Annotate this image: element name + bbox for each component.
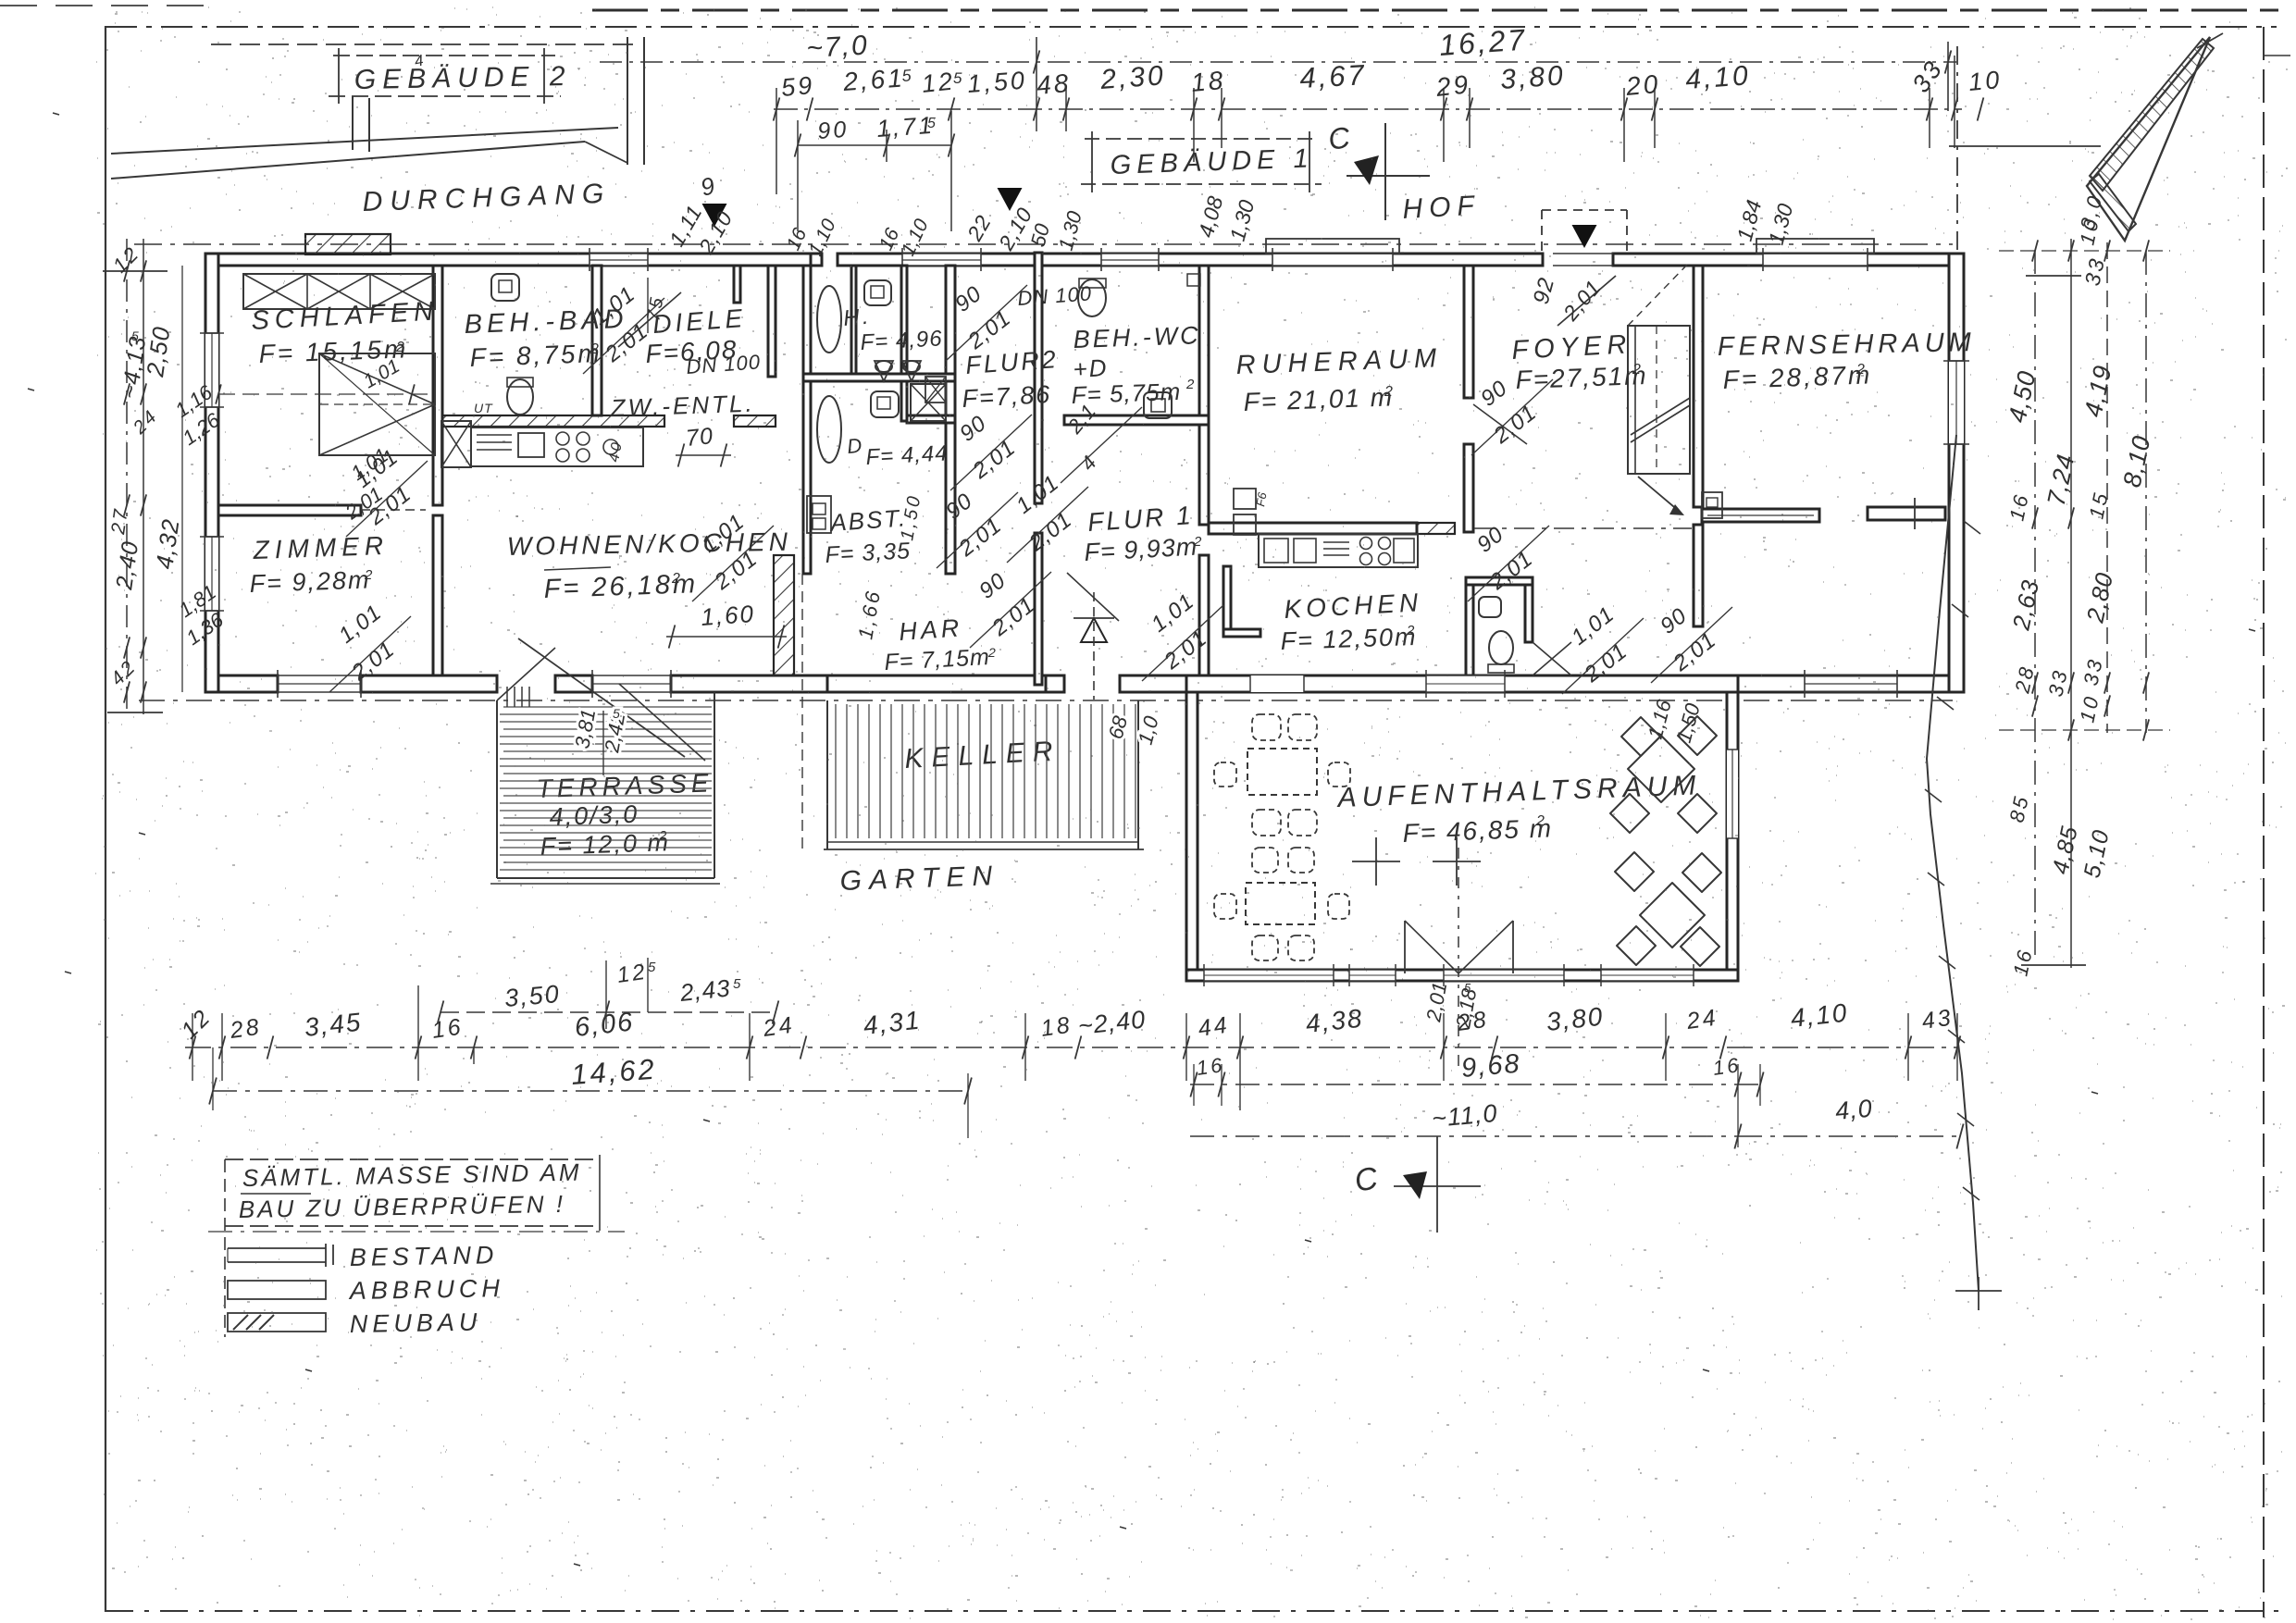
kitchen boxes FLUR1 side bbox=[1234, 489, 1256, 509]
svg-text:2: 2 bbox=[1185, 377, 1197, 392]
svg-text:5: 5 bbox=[733, 976, 743, 992]
svg-text:BESTAND: BESTAND bbox=[350, 1241, 499, 1271]
label box GEBAEUDE 2 bbox=[333, 55, 555, 56]
neubau hatched wall under DIELE bbox=[734, 415, 776, 427]
svg-text:F= 7,15m: F= 7,15m bbox=[884, 644, 991, 675]
svg-text:F= 4,44: F= 4,44 bbox=[865, 440, 949, 470]
wall RUHERAUM | FOYER bbox=[1464, 266, 1473, 398]
svg-text:29: 29 bbox=[1433, 69, 1471, 102]
sanitary block mid vertical bbox=[901, 266, 907, 421]
svg-text:28: 28 bbox=[1455, 1007, 1490, 1037]
svg-text:4,38: 4,38 bbox=[1304, 1004, 1364, 1038]
property dashed line below building bbox=[139, 700, 1953, 701]
legend ABBRUCH bbox=[228, 1281, 326, 1299]
svg-text:5: 5 bbox=[901, 66, 914, 85]
schlafen zimmer inner ticks bbox=[218, 393, 435, 395]
left margin ticks bbox=[141, 260, 146, 281]
svg-text:2: 2 bbox=[1535, 813, 1547, 829]
svg-text:2: 2 bbox=[395, 340, 407, 355]
sanitary block right wall bbox=[946, 266, 955, 574]
svg-text:4,31: 4,31 bbox=[862, 1006, 922, 1040]
svg-text:44: 44 bbox=[1197, 1012, 1231, 1042]
svg-text:10: 10 bbox=[1967, 66, 2004, 96]
svg-text:F= 9,93m: F= 9,93m bbox=[1084, 533, 1198, 566]
scan edge top bbox=[592, 9, 2290, 12]
wall SCHLAFEN | ZIMMER bbox=[218, 505, 361, 515]
svg-text:3,80: 3,80 bbox=[1499, 60, 1567, 95]
door swing DIELE bbox=[618, 292, 681, 347]
svg-text:18: 18 bbox=[1039, 1012, 1074, 1042]
svg-text:12: 12 bbox=[615, 960, 649, 988]
exterior wall bottom wing top bbox=[1186, 675, 1738, 692]
note box bbox=[225, 1158, 600, 1160]
svg-text:9,68: 9,68 bbox=[1460, 1048, 1522, 1083]
hatched chimney on top wall bbox=[305, 234, 391, 254]
wing cross marks bbox=[1352, 861, 1400, 862]
svg-text:F= 4,96: F= 4,96 bbox=[860, 326, 943, 355]
svg-text:~11,0: ~11,0 bbox=[1431, 1099, 1499, 1133]
keller left dash line bbox=[801, 574, 803, 849]
svg-text:14,62: 14,62 bbox=[570, 1053, 658, 1091]
sanitary block left wall bbox=[803, 266, 811, 574]
keller outline bbox=[826, 700, 828, 849]
washbasin BEH-BAD bbox=[491, 274, 519, 301]
wing bottom wall bbox=[1186, 970, 1738, 981]
svg-text:2: 2 bbox=[364, 567, 375, 583]
svg-text:UT: UT bbox=[474, 401, 493, 415]
svg-text:4,10: 4,10 bbox=[1684, 60, 1752, 95]
toilet kitchen WC bbox=[1489, 631, 1513, 664]
svg-text:ABBRUCH: ABBRUCH bbox=[348, 1274, 505, 1305]
window top RUHERAUM with sill bbox=[1272, 254, 1393, 266]
svg-text:FERNSEHRAUM: FERNSEHRAUM bbox=[1718, 328, 1976, 362]
svg-text:5: 5 bbox=[613, 706, 623, 721]
svg-text:GEBÄUDE 2: GEBÄUDE 2 bbox=[354, 61, 572, 95]
wall below BEH-WC bbox=[1064, 415, 1209, 425]
svg-text:BEH.-WC: BEH.-WC bbox=[1073, 321, 1201, 353]
svg-text:2: 2 bbox=[1632, 362, 1644, 378]
table group 1 bbox=[1247, 749, 1317, 795]
terrasse outline bbox=[496, 700, 498, 878]
building GEBAEUDE 2 outline bbox=[211, 43, 635, 45]
legend NEUBAU bbox=[228, 1313, 326, 1332]
dimension sub-chain 90/1,71 bbox=[798, 144, 951, 146]
exterior wall right bbox=[1949, 254, 1964, 692]
black triangle downpipe 2 bbox=[998, 188, 1023, 211]
svg-text:2: 2 bbox=[1193, 534, 1204, 550]
bottom chain 11,0 / 4,0 bbox=[1190, 1135, 1738, 1137]
svg-text:4,0/3,0: 4,0/3,0 bbox=[549, 800, 639, 831]
table group 2 bbox=[1246, 883, 1315, 924]
sanitary block partition H/D bbox=[803, 374, 955, 381]
svg-text:28: 28 bbox=[228, 1014, 263, 1045]
bottom chain main line bbox=[185, 1047, 1957, 1048]
exterior wall bottom keller stretch bbox=[827, 675, 1046, 692]
bottom sub-chain 3,50/2,43 bbox=[441, 1011, 776, 1013]
svg-text:43: 43 bbox=[1920, 1005, 1955, 1035]
shaft X sanitary bbox=[911, 384, 946, 421]
window left SCHLAFEN bbox=[205, 333, 218, 407]
window left ZIMMER bbox=[205, 537, 218, 611]
svg-text:C: C bbox=[1326, 120, 1355, 156]
wall BEH-WC | RUHERAUM bbox=[1199, 266, 1209, 525]
svg-text:F=27,51m: F=27,51m bbox=[1515, 361, 1648, 394]
svg-text:F=7,86: F=7,86 bbox=[962, 380, 1052, 413]
wall FERNSEH bottom-left window piece bbox=[1702, 509, 1819, 522]
svg-text:ZW.-ENTL.: ZW.-ENTL. bbox=[609, 390, 755, 422]
window bottom FERNSEH bbox=[1805, 675, 1897, 676]
wall RUHERAUM bottom / KOCHEN bbox=[1209, 523, 1417, 534]
dimension line ~7,0 / 16,27 bbox=[600, 61, 1956, 63]
wing window top right bbox=[1426, 675, 1505, 692]
window right FERNSEH bbox=[1949, 361, 1964, 444]
neubau hatched wall under BEH-BAD bbox=[442, 415, 664, 427]
svg-text:4,0: 4,0 bbox=[1834, 1095, 1874, 1125]
wing right wall bbox=[1727, 692, 1738, 980]
shaft X FLUR2 top bbox=[925, 377, 946, 403]
bottom chain 14,62 bbox=[213, 1090, 970, 1092]
diamond group B bbox=[1640, 883, 1705, 948]
walls kitchen WC bbox=[1466, 577, 1533, 585]
wing top opening bbox=[1250, 675, 1304, 692]
svg-text:24: 24 bbox=[1684, 1005, 1719, 1035]
black triangle downpipe 3 bbox=[1572, 225, 1597, 248]
wing left wall bbox=[1186, 692, 1198, 980]
svg-text:HOF: HOF bbox=[1402, 191, 1482, 225]
wall FOYER | FERNSEHRAUM bbox=[1694, 266, 1703, 507]
kitchen counter WOHNEN bbox=[471, 427, 643, 466]
svg-text:NEUBAU: NEUBAU bbox=[350, 1308, 482, 1338]
svg-text:F= 8,75m: F= 8,75m bbox=[469, 339, 602, 372]
bath tub H room bbox=[817, 286, 841, 353]
svg-text:F= 21,01 m: F= 21,01 m bbox=[1243, 382, 1394, 416]
wall FERNSEH bottom inset bbox=[1868, 507, 1945, 520]
right margin ticks bbox=[2032, 240, 2038, 261]
svg-text:20: 20 bbox=[1624, 69, 1662, 101]
hatched wall HAR left bbox=[774, 555, 794, 675]
svg-text:18: 18 bbox=[1190, 66, 1227, 97]
door swing RUHERAUM-FOYER bbox=[1473, 404, 1527, 444]
svg-text:3,50: 3,50 bbox=[503, 980, 562, 1012]
svg-text:GARTEN: GARTEN bbox=[839, 861, 1000, 897]
fence line to wedge bbox=[1949, 145, 2101, 147]
toilets H bbox=[875, 361, 893, 381]
svg-text:ABST.: ABST. bbox=[827, 503, 908, 537]
svg-text:24: 24 bbox=[761, 1012, 796, 1043]
stairs FOYER bbox=[1628, 326, 1690, 474]
svg-text:5: 5 bbox=[131, 328, 142, 343]
washbasin H bbox=[864, 280, 891, 305]
bed SCHLAFEN bbox=[319, 353, 435, 455]
svg-text:1,60: 1,60 bbox=[700, 600, 756, 631]
svg-text:2: 2 bbox=[658, 828, 669, 844]
window top H room bbox=[902, 254, 981, 266]
right margin vertical lines bbox=[2034, 250, 2036, 962]
page border top bbox=[105, 26, 2277, 28]
svg-text:1,50: 1,50 bbox=[966, 67, 1027, 98]
svg-text:2: 2 bbox=[671, 571, 683, 587]
entrance step triangle FLUR1 bbox=[1081, 618, 1107, 642]
svg-text:5: 5 bbox=[953, 69, 964, 87]
black triangle downpipe 1 bbox=[702, 204, 727, 227]
svg-text:HAR: HAR bbox=[898, 613, 963, 646]
window bottom ZIMMER bbox=[278, 675, 361, 676]
svg-text:3,80: 3,80 bbox=[1545, 1002, 1605, 1036]
terrasse stripes bbox=[503, 706, 712, 708]
entrance porch dashed bbox=[1541, 210, 1543, 255]
svg-text:+D: +D bbox=[1073, 353, 1109, 383]
door swing kitchen WC bbox=[1533, 642, 1571, 675]
sanitary block mid vertical 2 bbox=[851, 266, 856, 378]
svg-text:90: 90 bbox=[816, 117, 850, 144]
svg-text:4,10: 4,10 bbox=[1789, 998, 1849, 1033]
svg-text:~7,0: ~7,0 bbox=[806, 31, 870, 64]
svg-text:5: 5 bbox=[648, 960, 658, 975]
svg-text:5: 5 bbox=[1464, 981, 1473, 995]
dimension chain top bbox=[774, 108, 1962, 110]
svg-text:F= 9,28m: F= 9,28m bbox=[249, 565, 371, 598]
window top BEH-BAD bbox=[590, 254, 648, 266]
stray marks bbox=[53, 113, 59, 115]
corner box BEH-WC bbox=[1187, 274, 1200, 286]
wire bbox=[627, 37, 628, 165]
svg-text:16: 16 bbox=[1195, 1053, 1226, 1080]
window top FERNSEH with sill bbox=[1763, 254, 1868, 266]
svg-text:2: 2 bbox=[1384, 384, 1396, 400]
boundary wedge top right bbox=[2087, 37, 2210, 241]
kitchen counter KOCHEN bbox=[1259, 534, 1418, 567]
wall FLUR2 | BEH-WC bbox=[1035, 253, 1042, 503]
bottom chain 9,68 bbox=[1190, 1084, 1760, 1085]
svg-text:BAU ZU ÜBERPRÜFEN !: BAU ZU ÜBERPRÜFEN ! bbox=[239, 1190, 566, 1223]
svg-text:16: 16 bbox=[430, 1014, 465, 1044]
toilet D bbox=[871, 391, 899, 417]
svg-text:59: 59 bbox=[780, 71, 816, 102]
wall ZIMMER | WOHNEN bbox=[433, 515, 442, 675]
left margin lines bbox=[126, 239, 128, 714]
page border bottom bbox=[105, 1610, 2281, 1612]
svg-text:5: 5 bbox=[927, 116, 938, 131]
legend BESTAND bbox=[228, 1247, 326, 1249]
svg-text:F= 46,85 m: F= 46,85 m bbox=[1402, 813, 1553, 848]
svg-text:2: 2 bbox=[1406, 623, 1417, 638]
svg-text:70: 70 bbox=[685, 423, 715, 452]
sanitary block partition ABST bbox=[907, 415, 955, 423]
bath tub D room bbox=[817, 396, 841, 463]
exterior wall top bbox=[205, 254, 816, 266]
wall SCHLAFEN | BEH-BAD bbox=[433, 266, 442, 505]
shelf box FERNSEH bbox=[1702, 492, 1722, 518]
svg-text:3,45: 3,45 bbox=[303, 1008, 363, 1042]
washbasin kitchen WC bbox=[1479, 597, 1501, 617]
exterior wall top middle small piece bbox=[811, 254, 822, 266]
page border left bbox=[105, 26, 106, 1612]
toilet BEH-BAD bbox=[507, 379, 533, 415]
svg-text:F= 3,35: F= 3,35 bbox=[825, 538, 912, 568]
svg-text:48: 48 bbox=[1036, 68, 1073, 100]
terrasse door swing bbox=[518, 638, 685, 757]
svg-text:FOYER: FOYER bbox=[1511, 329, 1632, 365]
svg-text:D: D bbox=[846, 433, 865, 458]
svg-text:16,27: 16,27 bbox=[1438, 22, 1528, 62]
wardrobe row SCHLAFEN bbox=[243, 274, 435, 309]
toilet BEH-WC bbox=[1078, 279, 1106, 316]
svg-text:16: 16 bbox=[1711, 1053, 1743, 1080]
diamond group A bbox=[1628, 736, 1694, 802]
wing door X bbox=[1404, 921, 1406, 973]
garden boundary polyline bbox=[1927, 435, 1979, 1291]
kitchen left wall stub bbox=[1223, 566, 1231, 637]
svg-text:4,67: 4,67 bbox=[1299, 58, 1368, 94]
svg-text:12: 12 bbox=[920, 67, 956, 98]
svg-text:27: 27 bbox=[107, 505, 132, 536]
keller stripes bbox=[835, 704, 837, 838]
datum dash-dot line above building bbox=[134, 243, 1953, 245]
page border right bbox=[2263, 27, 2265, 1617]
kitchen X-box WOHNEN bbox=[441, 421, 471, 467]
door swing entrance bbox=[1558, 276, 1616, 326]
window bottom WOHNEN bbox=[592, 675, 671, 676]
svg-text:2: 2 bbox=[987, 645, 999, 660]
wall BEH-BAD | DIELE bbox=[592, 266, 602, 415]
door swing FLUR1 bbox=[1067, 573, 1119, 621]
wing center dashed line bbox=[1458, 848, 1459, 1073]
svg-text:2,43: 2,43 bbox=[677, 973, 731, 1007]
svg-text:ZIMMER: ZIMMER bbox=[252, 531, 389, 564]
svg-text:2,61: 2,61 bbox=[841, 63, 905, 96]
svg-text:2,30: 2,30 bbox=[1098, 60, 1167, 95]
svg-text:H.: H. bbox=[842, 304, 872, 331]
window top BEH-WC bbox=[1101, 254, 1159, 266]
shelf ABST bbox=[807, 496, 831, 533]
svg-text:F= 12,50m: F= 12,50m bbox=[1280, 623, 1418, 655]
svg-text:SÄMTL. MASSE SIND AM: SÄMTL. MASSE SIND AM bbox=[242, 1158, 582, 1192]
exterior wall bottom left part bbox=[205, 675, 278, 692]
exterior wall left bbox=[205, 254, 218, 692]
exterior wall bottom right part bbox=[1738, 675, 1962, 692]
wall DIELE right bbox=[768, 266, 776, 377]
label box GEBAEUDE 1 bbox=[1085, 138, 1317, 140]
terrasse step ticks bbox=[506, 687, 508, 707]
shower BEH-WC bbox=[1144, 392, 1172, 418]
